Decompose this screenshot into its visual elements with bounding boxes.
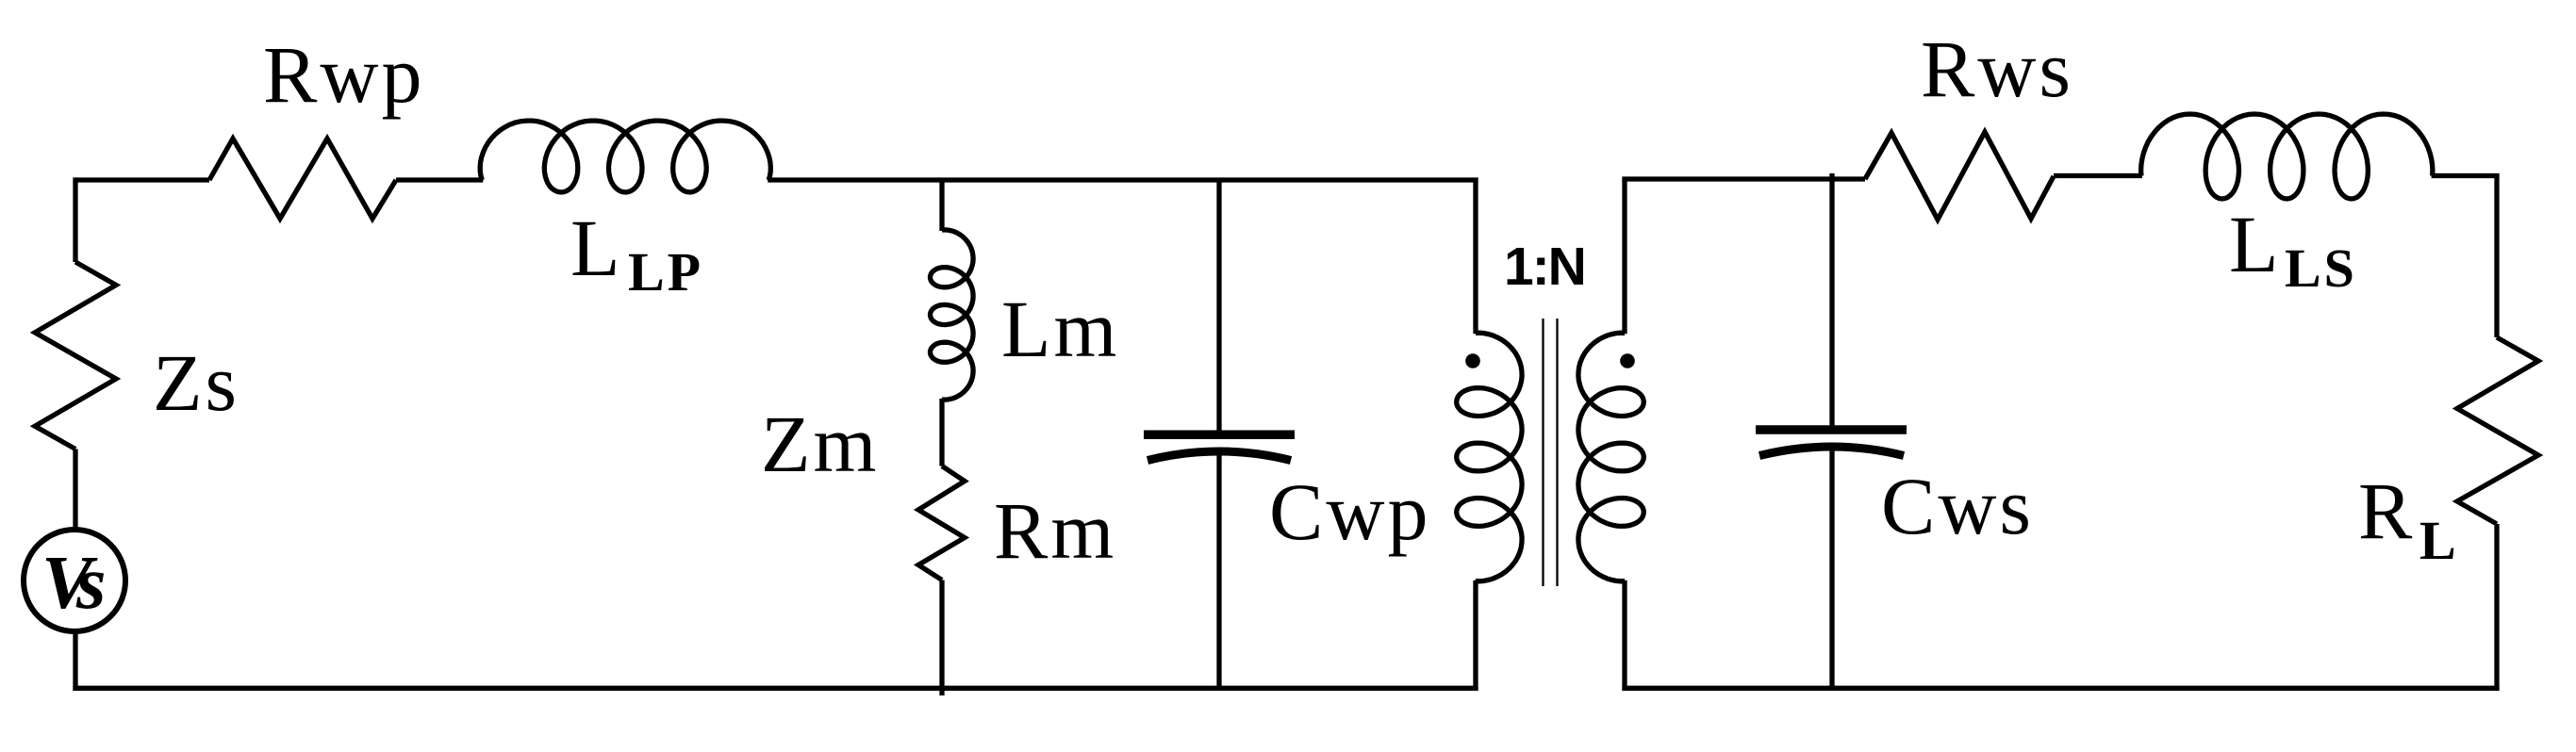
voltage source Vs (24, 530, 125, 631)
capacitor Cws top plate (1756, 425, 1907, 434)
transformer primary winding (1457, 333, 1522, 581)
wire right vertical upper (2494, 173, 2499, 337)
resistor Rm (918, 466, 965, 580)
wire transformer primary top stub (1473, 178, 1478, 335)
transformer secondary winding (1578, 333, 1643, 581)
wire Zm branch bottom stub (939, 580, 944, 696)
svg-text:Rm: Rm (994, 485, 1116, 576)
wire top middle (L_LP to transformer primary) (768, 177, 1478, 182)
wire right vertical lower (2494, 524, 2499, 691)
inductor Lm (931, 230, 974, 400)
capacitor Cws curved plate (1759, 447, 1904, 456)
wire between Rwp and L_LP (396, 177, 483, 182)
wire Cwp branch top stub (1216, 178, 1221, 432)
transformer primary phasing dot (1465, 353, 1480, 368)
wire left vertical middle (Zs to Vs) (73, 450, 77, 531)
wire Cwp branch bottom stub (1216, 450, 1221, 688)
svg-text:Cwp: Cwp (1269, 466, 1430, 557)
svg-text:L: L (570, 203, 623, 293)
wire bottom-left horizontal (73, 686, 1478, 691)
wire transformer secondary top stub (1622, 177, 1627, 335)
wire left vertical lower (Vs to bottom) (73, 630, 77, 691)
svg-text:Lm: Lm (1001, 284, 1119, 374)
svg-text:Rwp: Rwp (263, 29, 424, 120)
svg-text:Zm: Zm (761, 399, 879, 489)
wire transformer primary bottom stub (1473, 580, 1478, 691)
svg-text:Vs: Vs (41, 540, 105, 625)
svg-text:LP: LP (628, 241, 703, 302)
wire Cws branch bottom stub (1829, 446, 1834, 688)
wire L_LS to top-right corner (2432, 173, 2500, 178)
svg-text:1:N: 1:N (1504, 237, 1585, 297)
wire top-right (secondary to Rws, Cws tap) (1622, 176, 1865, 181)
capacitor Cwp curved plate (1148, 451, 1291, 461)
svg-text:L: L (2229, 199, 2282, 289)
transformer core line left (1542, 319, 1544, 586)
resistor Rwp (209, 139, 396, 219)
wire left vertical upper (73, 177, 77, 262)
transformer secondary phasing dot (1620, 353, 1635, 368)
svg-text:L: L (2419, 510, 2459, 571)
wire between Rws and L_LS (2054, 173, 2142, 178)
inductor L_LP (480, 121, 770, 192)
svg-text:Rws: Rws (1921, 24, 2073, 114)
transformer core line right (1556, 319, 1558, 586)
wire transformer secondary bottom stub (1622, 580, 1627, 691)
svg-text:R: R (2358, 466, 2415, 556)
inductor L_LS (2141, 114, 2433, 199)
resistor Rws (1865, 132, 2054, 220)
resistor Zs (35, 262, 116, 450)
resistor R_L (2457, 337, 2538, 524)
svg-text:Zs: Zs (153, 337, 239, 428)
capacitor Cwp top plate (1144, 430, 1295, 439)
wire bottom-right horizontal (1622, 686, 2499, 691)
wire top-left horizontal (node A to Rwp) (75, 177, 209, 182)
wire Zm branch middle (Lm to Rm) (939, 399, 944, 466)
wire Cws branch top stub (1829, 173, 1834, 426)
wire Zm branch top stub (939, 178, 944, 232)
svg-text:LS: LS (2285, 237, 2357, 299)
svg-text:Cws: Cws (1881, 461, 2034, 551)
